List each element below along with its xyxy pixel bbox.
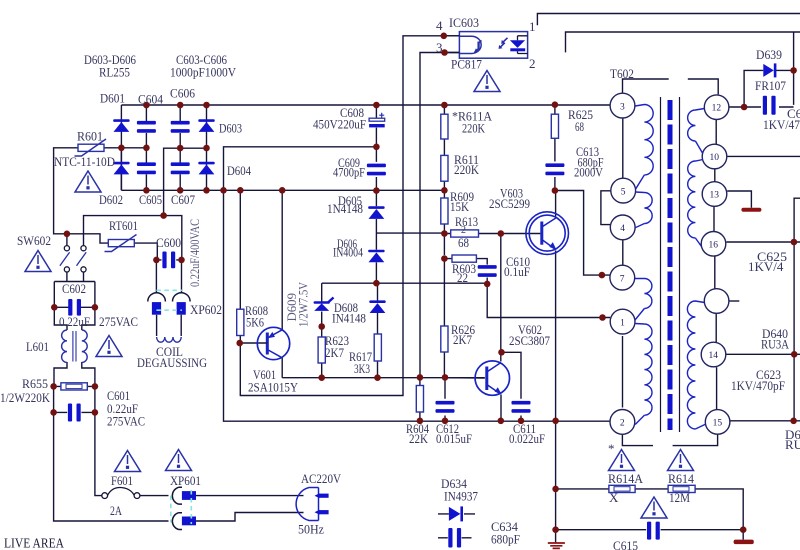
wire aux y=146.8 to C608/C609 column xyxy=(224,147,377,191)
capacitor C600 xyxy=(162,252,175,269)
svg-text:680pF: 680pF xyxy=(491,532,520,547)
svg-text:IN4937: IN4937 xyxy=(444,489,478,504)
svg-text:1/2W220K: 1/2W220K xyxy=(0,390,51,405)
wire V603 emitter down to ground xyxy=(555,251,557,543)
junction dots xyxy=(143,102,150,109)
transformer pin 13 (secondary) xyxy=(702,182,727,207)
wire V601 emitter-top to DC- rail xyxy=(281,190,283,377)
secondary winding lower xyxy=(687,301,704,429)
svg-text:FR107: FR107 xyxy=(755,78,786,93)
svg-text:12: 12 xyxy=(712,104,722,114)
wire RT601 right to C600 xyxy=(134,243,157,260)
wire R611A/R611/R609 column x=444.4 xyxy=(443,105,445,234)
svg-text:2: 2 xyxy=(529,56,536,71)
earth ground below V603 emitter line xyxy=(548,543,565,548)
wire R614A/R614 row y=488.9 xyxy=(556,489,744,540)
wire IC603 pin4 rail x=403 xyxy=(240,36,460,396)
resistor R614 xyxy=(668,485,695,492)
wire pin16 to right edge xyxy=(726,241,800,243)
svg-text:C605: C605 xyxy=(139,192,162,207)
wire R655 leads xyxy=(54,385,95,387)
capacitor C611 xyxy=(512,401,531,413)
wire R625/C613 column x=554.9 xyxy=(554,105,556,191)
svg-text:5: 5 xyxy=(621,187,626,197)
svg-text:1KV/470pF: 1KV/470pF xyxy=(731,378,785,393)
wire V603 collector xyxy=(555,191,557,218)
svg-text:1000pF1000V: 1000pF1000V xyxy=(170,65,237,80)
transformer pin 7 (primary) xyxy=(610,265,635,290)
wire degaussing coil leads xyxy=(157,315,182,336)
transformer pin 2 (primary) xyxy=(610,410,635,435)
wire pin5 to pin4 jog xyxy=(601,191,611,225)
wire V602 collector to C611 top xyxy=(502,352,522,399)
wire R604 column xyxy=(419,377,421,420)
svg-text:R601: R601 xyxy=(77,129,103,144)
wire D634 leads xyxy=(438,513,475,515)
svg-text:4: 4 xyxy=(436,18,443,33)
capacitor C634 xyxy=(448,528,461,548)
wire R613 node down to R603 xyxy=(444,234,452,259)
svg-text:2SA1015Y: 2SA1015Y xyxy=(248,380,299,395)
transformer pin 1 (primary) xyxy=(610,309,635,334)
resistor R608 xyxy=(237,309,244,335)
wire main DC+ bus y=105 xyxy=(121,104,610,106)
wire V601 base xyxy=(240,342,266,344)
svg-text:275VAC: 275VAC xyxy=(107,414,145,429)
resistor R611 xyxy=(441,155,448,181)
wire pin10 to right edge xyxy=(728,155,800,157)
wire D639 branch xyxy=(744,32,794,107)
svg-text:2A: 2A xyxy=(110,503,122,518)
wire C611 bottom xyxy=(520,416,522,421)
svg-text:D602: D602 xyxy=(99,192,123,207)
wire bridge cap column C606/C607 xyxy=(179,105,181,190)
svg-text:13: 13 xyxy=(710,191,720,201)
wire R613 node leads xyxy=(444,233,540,235)
svg-text:220K: 220K xyxy=(462,121,485,136)
wire big left vertical x=223.5 down to bottom rail xyxy=(224,190,611,421)
svg-text:1: 1 xyxy=(620,318,625,328)
svg-text:C604: C604 xyxy=(138,92,163,107)
svg-text:2K7: 2K7 xyxy=(325,345,344,360)
wire C613 node to transformer pin7 xyxy=(555,191,610,276)
wire pin14 to right edge xyxy=(726,353,800,355)
resistor R626 xyxy=(441,326,448,352)
svg-text:IC603: IC603 xyxy=(449,15,479,30)
warning triangle near R614 xyxy=(668,450,694,471)
svg-text:3K3: 3K3 xyxy=(354,361,370,376)
zener diode D609 xyxy=(314,301,330,311)
transformer pin 15 (secondary) xyxy=(705,410,730,435)
wire primary strap 4-7 xyxy=(622,240,624,265)
svg-text:X: X xyxy=(609,490,619,505)
wire bridge diode column D603/D604 xyxy=(206,105,208,190)
capacitor C615 xyxy=(647,522,660,540)
wire R603 right to C610 xyxy=(476,259,487,284)
svg-text:D639: D639 xyxy=(756,47,782,62)
diode D601 xyxy=(113,119,129,132)
svg-text:F601: F601 xyxy=(111,473,133,488)
svg-text:22K: 22K xyxy=(409,431,429,446)
wire pin3 top strap xyxy=(623,79,719,94)
svg-text:275VAC: 275VAC xyxy=(99,314,138,329)
svg-text:R655: R655 xyxy=(22,376,48,391)
svg-text:C615: C615 xyxy=(613,538,638,550)
svg-text:D601: D601 xyxy=(100,91,125,106)
svg-text:16: 16 xyxy=(709,240,719,250)
warning triangle near SW602 xyxy=(25,251,51,272)
svg-text:450V220uF: 450V220uF xyxy=(313,117,366,132)
svg-text:2SC5299: 2SC5299 xyxy=(489,196,530,211)
wire zener column D609/R623 xyxy=(321,283,323,378)
primary winding 3-5 xyxy=(635,105,653,175)
warning triangle near IC603 xyxy=(474,71,500,92)
wire XP602 columns xyxy=(156,260,181,293)
svg-text:68: 68 xyxy=(575,119,584,134)
wire second rail from IC603 pin2 xyxy=(566,32,800,52)
transistor V603 2SC5299 xyxy=(526,212,569,255)
wire V602 base xyxy=(445,377,485,379)
wire unnumbered pin stub xyxy=(729,300,739,302)
svg-text:R614A: R614A xyxy=(608,471,644,486)
svg-text:2000V: 2000V xyxy=(574,165,603,180)
svg-text:4700pF: 4700pF xyxy=(333,166,365,180)
warning triangle near R614A xyxy=(609,450,635,471)
maroon ground bar near pin13 xyxy=(741,208,761,212)
svg-text:4: 4 xyxy=(620,224,625,234)
resistor R625 xyxy=(551,114,558,138)
resistor R611A xyxy=(441,114,448,139)
connector XP602 xyxy=(148,293,166,302)
wire D605/D606 junction to R613 node y=233 xyxy=(376,232,444,234)
svg-text:R614: R614 xyxy=(668,471,694,486)
wire bridge mid left (R601 to C604/C605 node) xyxy=(104,147,146,149)
svg-text:50Hz: 50Hz xyxy=(298,522,324,537)
svg-text:2K7: 2K7 xyxy=(453,332,472,347)
wire R626 column xyxy=(443,259,445,378)
wire bridge diode column D601/D602 xyxy=(120,105,122,190)
wire fuse to XP601 top xyxy=(140,495,169,497)
svg-text:D604: D604 xyxy=(227,163,251,178)
optocoupler IC603 PC817 xyxy=(459,32,527,59)
transformer pin 5 (primary) xyxy=(611,178,636,203)
transformer pin 12 (secondary) xyxy=(704,95,729,120)
svg-text:SW602: SW602 xyxy=(17,233,51,248)
wire L601 jogs xyxy=(54,307,95,386)
svg-text:XP602: XP602 xyxy=(190,302,222,317)
svg-text:LIVE AREA: LIVE AREA xyxy=(4,536,64,550)
capacitor C612 xyxy=(436,401,455,413)
wire pin13 to ground bar xyxy=(727,191,751,208)
svg-text:XP601: XP601 xyxy=(170,473,201,488)
wire bridge cap column C604/C605 xyxy=(145,105,147,190)
primary winding 5-4 xyxy=(636,192,653,224)
svg-text:0.22uF: 0.22uF xyxy=(59,314,90,329)
resistor R613 xyxy=(451,230,479,237)
svg-text:R613: R613 xyxy=(455,214,478,229)
svg-text:C602: C602 xyxy=(62,281,86,296)
wire R608 column xyxy=(239,190,241,395)
wire primary strap 3-5 xyxy=(622,118,624,178)
resistor R614A xyxy=(609,485,635,492)
wire left rail down to XP601 bottom xyxy=(54,412,169,521)
switch SW602 xyxy=(64,246,86,272)
secondary winding 12-10 xyxy=(688,109,705,142)
svg-text:RU: RU xyxy=(785,437,800,452)
svg-text:12M: 12M xyxy=(669,490,690,505)
wire C608/C609/D605/D606 column x=376.4 xyxy=(375,105,377,283)
svg-text:14: 14 xyxy=(709,351,719,361)
svg-text:15: 15 xyxy=(713,418,723,428)
wire switch lower contacts to C602 box xyxy=(54,272,95,307)
warning triangle near mains xyxy=(96,336,122,357)
svg-text:2: 2 xyxy=(620,419,625,429)
transformer pin un-numbered (secondary) xyxy=(704,289,729,314)
svg-text:RT601: RT601 xyxy=(109,218,138,233)
maroon ground bar lower right xyxy=(734,540,754,545)
svg-text:3: 3 xyxy=(620,102,625,112)
wire pin12 to D639 node xyxy=(729,106,761,108)
wire top rail from IC603 pin1 xyxy=(537,14,800,26)
resistor R604 xyxy=(416,386,423,413)
wire pin15 to right edge xyxy=(730,420,800,422)
wire XP601 top to AC plug xyxy=(196,495,304,497)
wire primary strap 1-2 xyxy=(622,336,624,408)
svg-text:5K6: 5K6 xyxy=(246,315,264,330)
wire C601 node xyxy=(54,386,95,412)
resistor R617 xyxy=(374,334,381,361)
diode D639 FR107 xyxy=(763,63,776,77)
wire bridge mid right (C606 node to D604) xyxy=(164,148,207,215)
svg-text:C606: C606 xyxy=(170,86,195,101)
svg-text:10: 10 xyxy=(710,153,720,163)
svg-text:220K: 220K xyxy=(454,163,479,177)
svg-text:DEGAUSSING: DEGAUSSING xyxy=(137,355,207,370)
capacitor C601 xyxy=(68,404,81,422)
svg-text:RL255: RL255 xyxy=(99,65,130,80)
svg-text:D603: D603 xyxy=(219,121,242,136)
resistor R623 xyxy=(318,337,325,363)
svg-text:68: 68 xyxy=(458,235,469,250)
capacitor C620 xyxy=(763,96,776,115)
transformer pin 4 (primary) xyxy=(610,215,635,240)
svg-text:IN4148: IN4148 xyxy=(332,311,366,326)
resistor RT601 xyxy=(108,240,134,247)
capacitor C610 xyxy=(478,265,497,277)
wire R601 left to switch xyxy=(54,148,109,243)
svg-text:PC817: PC817 xyxy=(451,57,482,72)
svg-text:0.015uF: 0.015uF xyxy=(436,431,472,446)
wire C602 leads xyxy=(54,306,95,308)
capacitor C602 xyxy=(68,299,81,316)
svg-text:15K: 15K xyxy=(450,199,470,214)
primary winding 7-1 xyxy=(635,279,652,309)
AC plug AC220V xyxy=(296,488,318,521)
diode D605 xyxy=(368,206,384,219)
svg-text:0.022uF: 0.022uF xyxy=(509,431,545,446)
wire C612 column xyxy=(444,377,446,420)
transformer T602 core xyxy=(661,97,680,432)
diode D602 xyxy=(113,162,129,175)
wire y=283 zener top to C610 xyxy=(322,282,488,284)
transformer pin 10 (secondary) xyxy=(702,144,727,169)
wire secondary straps xyxy=(714,120,717,410)
wire right rail x=794 with corner at top xyxy=(794,198,800,421)
svg-text:1N4148: 1N4148 xyxy=(327,202,363,216)
transformer pin 16 (secondary) xyxy=(701,232,726,257)
warning triangle near C615 xyxy=(641,497,667,518)
svg-text:1KV/4: 1KV/4 xyxy=(748,259,784,274)
degaussing coil xyxy=(157,337,182,342)
svg-text:0.22uF/400VAC: 0.22uF/400VAC xyxy=(188,219,202,287)
diode D606 xyxy=(368,250,384,263)
svg-text:0.1uF: 0.1uF xyxy=(504,264,530,279)
svg-text:RU3A: RU3A xyxy=(761,337,789,352)
capacitor C604 xyxy=(137,121,156,133)
warning triangle near NTC xyxy=(75,171,101,192)
svg-text:T602: T602 xyxy=(610,66,634,81)
fuse F601 xyxy=(102,493,108,499)
capacitor C608 electrolytic xyxy=(369,118,385,121)
svg-text:L601: L601 xyxy=(26,339,49,354)
diode D604 xyxy=(198,162,214,175)
capacitor C613 xyxy=(545,163,564,175)
resistor R601 NTC xyxy=(78,144,104,151)
wire D608/R617 column xyxy=(377,283,379,378)
svg-text:1KV/47: 1KV/47 xyxy=(763,117,800,132)
capacitor C609 xyxy=(367,164,386,176)
transformer pin 14 (secondary) xyxy=(701,342,726,367)
svg-text:C607: C607 xyxy=(171,192,195,207)
connector XP601 xyxy=(172,487,182,504)
transformer pin 3 (primary) xyxy=(610,93,635,118)
wire C634 leads xyxy=(438,537,472,539)
wire pin2 bottom strap xyxy=(622,434,717,445)
svg-text:7: 7 xyxy=(620,274,625,284)
wire emitter rail y=377.7 xyxy=(282,377,485,379)
capacitor C607 xyxy=(171,162,190,174)
diode D603 xyxy=(198,119,214,132)
wire IC603 pin3 rail x=420 xyxy=(420,53,459,378)
svg-text:3: 3 xyxy=(436,40,443,55)
wire XP601 bottom to AC plug xyxy=(196,513,304,522)
warning triangle near XP601 xyxy=(166,450,192,471)
resistor R609 xyxy=(441,198,448,224)
svg-text:NTC-11-10D: NTC-11-10D xyxy=(54,154,115,169)
wire degauss feed y=215.6 xyxy=(84,216,182,260)
resistor R655 xyxy=(61,383,87,390)
secondary winding 10-16 xyxy=(688,160,703,239)
diode D608 xyxy=(369,300,385,313)
primary winding 1-2 xyxy=(635,324,652,416)
warning triangle near F601 xyxy=(115,451,141,472)
svg-text:C600: C600 xyxy=(156,235,181,250)
svg-text:1/2W7.5V: 1/2W7.5V xyxy=(297,282,311,327)
svg-text:AC220V: AC220V xyxy=(301,471,342,486)
svg-text:2SC3807: 2SC3807 xyxy=(509,333,550,348)
wire V602 emitter down xyxy=(500,395,502,421)
svg-text:1: 1 xyxy=(529,19,536,34)
transistor V602 2SC3807 xyxy=(475,361,509,395)
transistor V601 2SA1015Y xyxy=(257,327,289,359)
svg-text:*: * xyxy=(608,441,615,456)
wire V603 base node down to V602 collector xyxy=(500,234,502,362)
wire DC- rail y=190.3 xyxy=(121,148,444,191)
svg-text:22: 22 xyxy=(457,270,468,285)
capacitor C605 xyxy=(137,162,156,174)
resistor R603 xyxy=(452,255,476,262)
wire C610 bottom to transformer pin1 xyxy=(487,284,610,318)
svg-text:IN4004: IN4004 xyxy=(333,246,364,260)
diode D634 IN4937 xyxy=(449,506,463,521)
wire right rail down to fuse xyxy=(95,412,102,495)
wire C615 row y=529.7 xyxy=(556,529,744,531)
inductor L601 common mode choke xyxy=(62,330,88,362)
wire C600 node leads xyxy=(156,259,181,261)
capacitor C606 xyxy=(171,121,190,133)
